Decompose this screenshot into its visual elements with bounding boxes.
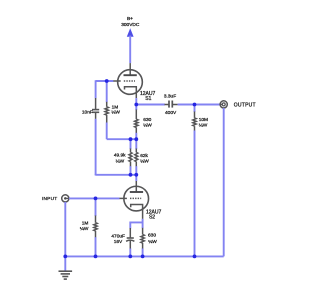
svg-text:INPUT: INPUT <box>42 196 57 202</box>
grid S1 (dashed) <box>124 80 135 82</box>
svg-text:¼W: ¼W <box>199 122 208 128</box>
wire INPUT terminal down <box>64 202 66 256</box>
svg-text:630: 630 <box>148 232 156 238</box>
node ground rail: 470uF branch <box>128 255 132 259</box>
resistor R1 1M (upper) <box>105 102 108 123</box>
wire 1M upper to upper rail <box>106 123 108 140</box>
resistor R2 10M <box>193 105 196 132</box>
node upper rail right <box>134 137 138 141</box>
svg-text:630: 630 <box>143 117 151 123</box>
value label 470uF 16V <box>111 234 125 245</box>
svg-text:62k: 62k <box>140 153 148 159</box>
wire OUTPUT terminal down to ground rail <box>223 108 225 256</box>
wire 10M to ground rail <box>194 131 196 257</box>
node lower rail left <box>129 173 133 177</box>
terminal INPUT <box>62 195 69 202</box>
wire lower rail <box>95 174 97 175</box>
node output junction <box>193 103 197 107</box>
node S1 grid <box>105 79 109 83</box>
value label 10M 1/4W <box>199 117 208 128</box>
value label 630 1/4W (upper) <box>143 117 152 128</box>
svg-text:¼W: ¼W <box>140 158 149 164</box>
svg-text:49.9k: 49.9k <box>114 153 126 159</box>
terminal OUTPUT <box>220 101 227 108</box>
node ground rail: input branch <box>63 255 67 259</box>
wire 470uF to ground rail <box>129 249 131 257</box>
tube U2: triode 12AU7 S2 <box>119 181 149 219</box>
svg-text:¼W: ¼W <box>80 226 89 232</box>
svg-text:OUTPUT: OUTPUT <box>234 102 256 108</box>
pin: plate lead S2 <box>135 181 137 192</box>
svg-text:1M: 1M <box>82 221 89 227</box>
node lower rail right <box>134 173 138 177</box>
value label 49.9k 1/4W <box>114 153 126 165</box>
power B+ label <box>121 16 140 28</box>
value label 3.3uF 400V <box>164 94 177 116</box>
cathode S1 <box>125 87 137 98</box>
svg-text:S2: S2 <box>149 215 155 221</box>
pin: grid lead S2 <box>119 197 127 199</box>
tube U1: triode 12AU7 S1 <box>113 63 143 98</box>
svg-text:10M: 10M <box>199 117 208 123</box>
wire upper rail <box>107 138 137 140</box>
grid S2 (dashed) <box>130 197 141 199</box>
node upper rail left <box>129 137 133 141</box>
pin: grid lead S1 <box>113 80 121 82</box>
node ground rail: 630 branch <box>141 255 145 259</box>
resistor R7 630 (lower, S2 cathode) <box>141 228 144 257</box>
power B+ arrow <box>127 28 134 63</box>
wire S2 cathode lead <box>142 219 144 228</box>
wire S2 plate lead <box>135 175 137 181</box>
svg-text:3.3uF: 3.3uF <box>164 94 176 100</box>
wire ground rail <box>65 255 223 257</box>
wire cathode node to coupling cap <box>136 104 165 106</box>
capacitor C 10nF <box>92 98 99 119</box>
tube S2 label <box>146 209 162 220</box>
tube S1 label <box>140 91 156 102</box>
svg-text:10nF: 10nF <box>82 109 93 115</box>
node ground rail: 10M branch <box>193 255 197 259</box>
svg-text:300VDC: 300VDC <box>121 22 140 28</box>
wire 10nF down to lower rail <box>95 119 97 175</box>
svg-text:¼W: ¼W <box>148 239 157 245</box>
svg-text:400V: 400V <box>165 110 177 116</box>
resistor R3 630 (upper, S1 cathode) <box>135 105 138 140</box>
capacitor C 3.3uF <box>165 101 178 108</box>
node S1 cathode <box>134 103 138 107</box>
svg-text:¼W: ¼W <box>111 110 120 116</box>
svg-text:470uF: 470uF <box>111 234 125 240</box>
svg-text:¼W: ¼W <box>143 122 152 128</box>
value label 62k 1/4W <box>140 153 149 165</box>
wire cap to OUTPUT terminal <box>178 104 221 106</box>
plate bar S1 <box>124 74 137 76</box>
resistor R6 1M (lower) <box>94 198 97 256</box>
svg-text:S1: S1 <box>145 96 151 102</box>
cathode S2 <box>131 205 143 219</box>
svg-text:B+: B+ <box>127 16 133 22</box>
value label 1M 1/4W (lower) <box>80 221 89 232</box>
wire cathode stub to 470uF <box>130 222 142 228</box>
svg-text:16V: 16V <box>114 239 123 245</box>
wire grid corner down to 10nF <box>95 80 97 98</box>
wire node to R 1M upper <box>106 81 108 102</box>
pin: plate lead S1 <box>129 63 131 75</box>
node S2 grid <box>94 197 98 201</box>
wire S1 cathode lead <box>135 98 137 104</box>
svg-text:¼W: ¼W <box>116 158 125 164</box>
wire INPUT to S2 grid <box>69 197 120 199</box>
capacitor C 470uF (polarized) <box>126 228 134 249</box>
wire S1 grid <box>96 80 114 82</box>
resistor R5 62k <box>135 139 138 175</box>
value label 1M 1/4W (upper) <box>111 105 120 116</box>
value label 630 1/4W (lower) <box>148 232 157 245</box>
plate bar S2 <box>130 191 143 193</box>
ground symbol <box>59 256 73 279</box>
resistor R4 49.9k <box>129 139 132 175</box>
node ground rail: 1M branch <box>94 255 98 259</box>
